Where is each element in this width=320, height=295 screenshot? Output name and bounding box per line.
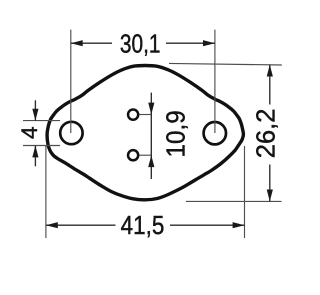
dimension line 10,9 (150, 93, 152, 179)
svg-text:41,5: 41,5 (121, 212, 165, 241)
arrow 26,2 down (267, 190, 273, 202)
tick top pin hole (140, 114, 152, 116)
extension line top 26,2 (169, 63, 282, 65)
arrow 41,5 right (233, 222, 245, 228)
pin hole top (128, 110, 138, 120)
arrow 10,9 down (148, 103, 154, 115)
dimension line 41,5 left segment (46, 224, 116, 226)
extension line top 4 (23, 120, 60, 122)
arrow 30,1 right (203, 40, 215, 46)
arrow 26,2 up (267, 65, 273, 77)
pin hole bottom (128, 150, 138, 160)
arrow 10,9 up (148, 155, 154, 167)
svg-text:30,1: 30,1 (120, 30, 161, 58)
arrow 41,5 left (46, 222, 58, 228)
tick bottom pin hole (140, 154, 152, 156)
arrow 4 down (32, 109, 38, 121)
dimension line 26,2 bottom segment (269, 165, 271, 202)
dimension line 26,2 top segment (269, 65, 271, 105)
extension line bottom 4 (23, 145, 60, 147)
extension line left 30,1 (70, 30, 72, 133)
svg-text:4: 4 (17, 126, 42, 139)
svg-text:10,9: 10,9 (162, 110, 191, 157)
dimension line 30,1 right segment (166, 42, 215, 44)
svg-text:26,2: 26,2 (253, 109, 281, 159)
mounting hole right (204, 122, 226, 144)
package outline TO-3 flange (47, 66, 243, 200)
extension line left 41,5 (45, 146, 47, 238)
dimension line 41,5 right segment (170, 224, 245, 226)
dimension line 4 upper segment (34, 100, 36, 120)
extension line right 30,1 (214, 30, 216, 133)
dimension line 30,1 left segment (71, 42, 112, 44)
mounting hole left (60, 122, 82, 144)
arrow 30,1 left (71, 40, 83, 46)
extension line bottom 26,2 (186, 200, 282, 202)
arrow 4 up (32, 146, 38, 158)
extension line right 41,5 (244, 146, 246, 238)
dimension line 4 lower segment (34, 146, 36, 167)
